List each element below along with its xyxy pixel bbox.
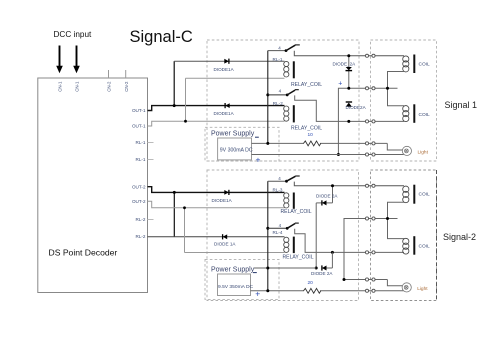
svg-text:OUT-2: OUT-2 [132, 184, 146, 189]
svg-text:Light: Light [418, 149, 429, 155]
wire W1': OUT-2 pin to diode row [148, 187, 285, 193]
diode D3 DIODE 2A (vertical, cathode down) [348, 56, 350, 89]
switch RL-1 fixed contact [294, 51, 404, 56]
svg-text:Power Supply: Power Supply [211, 266, 255, 273]
power supply PS1 box [218, 138, 252, 160]
svg-text:RL-2: RL-2 [273, 101, 283, 106]
svg-text:RELAY_COIL: RELAY_COIL [291, 126, 322, 132]
svg-text:RL-4: RL-4 [273, 230, 283, 235]
wire: RL-1 coil bottom row [186, 77, 285, 79]
diode D5 DIODE1A (points right) [224, 190, 229, 195]
wire W1: OUT-1 pin to diode row [148, 106, 285, 111]
lamp L2 [402, 283, 411, 292]
node junction on W2' [183, 206, 186, 209]
relay coil RL-3 [284, 193, 289, 208]
decoder U1 box [38, 78, 148, 293]
relay coil RL-2 [284, 106, 289, 121]
switch RL-2 pivot wire [266, 93, 269, 96]
svg-text:Signal-C: Signal-C [130, 28, 193, 46]
svg-text:Power Supply: Power Supply [211, 131, 255, 138]
wire row R4 [344, 279, 387, 281]
box B2 right edge darker [436, 170, 438, 301]
node dots R3 [331, 251, 334, 254]
svg-text:RELAY_COIL: RELAY_COIL [283, 254, 314, 260]
svg-text:OUT-2: OUT-2 [132, 199, 146, 204]
wire RL-4 coil bottom row [185, 252, 285, 254]
wire to switch RL-3 pivot [268, 180, 287, 182]
svg-text:COIL: COIL [419, 244, 431, 250]
svg-text:DIODE2A: DIODE2A [346, 105, 367, 110]
vertical from W2' junction down to RL-4 coil bottom [184, 208, 186, 253]
wire W2': OUT-2 pin 2 to coil bottoms [148, 201, 285, 208]
diode D4 DIODE2A (vertical, cathode up) [346, 102, 352, 107]
svg-text:DIODE_2A: DIODE_2A [333, 62, 357, 67]
wire R4 into lamp [387, 280, 402, 286]
node dots row1/row2 [347, 54, 350, 57]
switch RL-2 fixed contact jog wire [295, 95, 404, 121]
DCC input arrow 2 [73, 46, 80, 74]
signal coil 1 (box B1 top) [403, 56, 409, 72]
svg-text:DIODE 1A: DIODE 1A [214, 242, 236, 247]
svg-text:Signal 1: Signal 1 [445, 100, 478, 110]
svg-text:+: + [338, 80, 342, 87]
svg-text:RELAY_COIL: RELAY_COIL [291, 82, 322, 88]
svg-text:20: 20 [308, 280, 314, 286]
switch RL-4 fixed contact jog wire [295, 229, 404, 253]
wire bracket between coils [388, 72, 405, 106]
relay contact RL-3 (switch) [285, 176, 300, 183]
resistor R2 20 ohm [304, 288, 321, 293]
svg-text:RL-1: RL-1 [136, 140, 146, 145]
decoder right pin labels [132, 108, 146, 239]
connector pairs signal 2 [365, 184, 375, 292]
wire: vertical from W1 junction up to diode row 1 [173, 61, 175, 105]
svg-text:+: + [256, 155, 261, 165]
diode D7 DIODE 2A (horizontal, cathode left) [332, 186, 334, 203]
minus mark [255, 136, 259, 138]
wire row r4 (minus) [252, 142, 305, 144]
svg-text:10: 10 [308, 132, 314, 138]
dashed box A2 [207, 170, 359, 301]
relay contact RL-4 (switch) [286, 223, 299, 230]
svg-text:DIODE 2A: DIODE 2A [316, 194, 338, 199]
relay contact RL-2 (switch) [286, 90, 299, 97]
dashed power-supply box PS2 [205, 259, 279, 299]
diode D2 DIODE1A (points left) [225, 103, 230, 108]
node junction on W1' [173, 191, 176, 194]
svg-text:RL-1: RL-1 [273, 57, 283, 62]
node junction on W1 [173, 104, 176, 107]
dashed box B2 [371, 170, 437, 301]
svg-text:9.5V 350mA DC: 9.5V 350mA DC [218, 284, 254, 290]
node center tap [386, 87, 389, 90]
svg-text:COIL: COIL [419, 192, 431, 198]
signal coil 2 (box B1 bottom) [403, 106, 409, 122]
wire row R5 (plus) [251, 290, 305, 292]
signal coil 4 (box B2 bottom) [403, 238, 409, 254]
svg-text:DCC input: DCC input [54, 30, 92, 39]
svg-text:RL-2: RL-2 [136, 234, 146, 239]
signal coil 3 (box B2 top) [403, 186, 409, 203]
decoder top pin stubs [109, 70, 126, 78]
svg-text:CN-2: CN-2 [124, 81, 129, 92]
svg-text:DIODE1A: DIODE1A [214, 111, 235, 116]
lamp L1 [402, 146, 411, 155]
resistor R1 10 ohm [304, 141, 321, 146]
wire: diode row 1 to relay coil RL-1 top [174, 60, 284, 62]
wire bracket between coils [388, 202, 405, 238]
svg-text:CN-1: CN-1 [58, 81, 63, 92]
diode D8 DIODE 2A (horizontal, cathode left) [331, 252, 333, 268]
svg-text:DIODE 2A: DIODE 2A [311, 271, 333, 276]
wire RL-2 pin to diode row 2 [148, 236, 285, 238]
switch RL-4 pivot wire [266, 227, 269, 230]
wire to switch RL-1 pivot [268, 50, 286, 52]
vertical wire through R3 (diode chain) [315, 203, 317, 268]
svg-text:CN-1: CN-1 [75, 81, 80, 92]
dashed box B1 [371, 40, 437, 161]
relay bus 2 vertical wire [267, 181, 269, 291]
svg-text:RELAY_COIL: RELAY_COIL [281, 209, 312, 215]
wire r4 into lamp [387, 143, 402, 150]
svg-text:COIL: COIL [419, 112, 431, 118]
wire row r5 (plus) [252, 154, 404, 156]
svg-text:DS Point Decoder: DS Point Decoder [49, 247, 118, 257]
svg-text:DIODE1A: DIODE1A [212, 198, 233, 203]
wire row r2 (center tap) [338, 88, 397, 154]
switch RL-3 fixed contact [294, 182, 404, 186]
relay coil RL-4 [284, 237, 289, 252]
node bus to r4 [266, 142, 269, 145]
node dots [347, 120, 350, 123]
diode D6 DIODE 1A (points left) [223, 234, 228, 239]
svg-text:RL-3: RL-3 [273, 187, 283, 192]
wire row R2 (center tap) [344, 219, 398, 280]
wire W2: OUT-1 pin 2 to coil bottoms [148, 121, 285, 126]
node junction on W2 [184, 120, 187, 123]
dashed power-supply box PS1 [205, 127, 279, 161]
svg-text:9V 300mA DC: 9V 300mA DC [220, 147, 253, 153]
DCC input arrow 1 [56, 46, 63, 74]
svg-text:Light: Light [417, 286, 428, 292]
minus mark [253, 272, 257, 274]
svg-text:Signal-2: Signal-2 [443, 232, 476, 242]
relay bus vertical wire [267, 51, 269, 144]
svg-text:DIODE1A: DIODE1A [214, 67, 235, 72]
vertical from W1' junction down to second diode row [173, 192, 175, 236]
connector pairs signal 1 [365, 54, 375, 156]
svg-text:RL-1: RL-1 [136, 157, 146, 162]
relay coil RL-1 [284, 61, 289, 77]
svg-text:RL-2: RL-2 [136, 217, 146, 222]
wire: vertical from W2 junction up to RL-1 coil bottom [185, 78, 187, 121]
wire minus row to diode D8 [254, 267, 316, 269]
svg-text:OUT-1: OUT-1 [132, 108, 146, 113]
svg-text:+: + [255, 288, 260, 298]
relay contact RL-1 (switch) [285, 45, 300, 52]
diode D1 DIODE1A (points right) [224, 59, 229, 64]
svg-text:CN-2: CN-2 [107, 81, 112, 92]
dashed box A1 [207, 40, 359, 161]
svg-text:OUT-1: OUT-1 [132, 124, 146, 129]
svg-text:COIL: COIL [419, 62, 431, 68]
unused pin stubs RL-1 RL-1 RL-2 [148, 143, 154, 220]
decoder top pin labels (rotated) [58, 81, 129, 92]
power supply PS2 box [218, 274, 251, 296]
node center tap [386, 217, 389, 220]
